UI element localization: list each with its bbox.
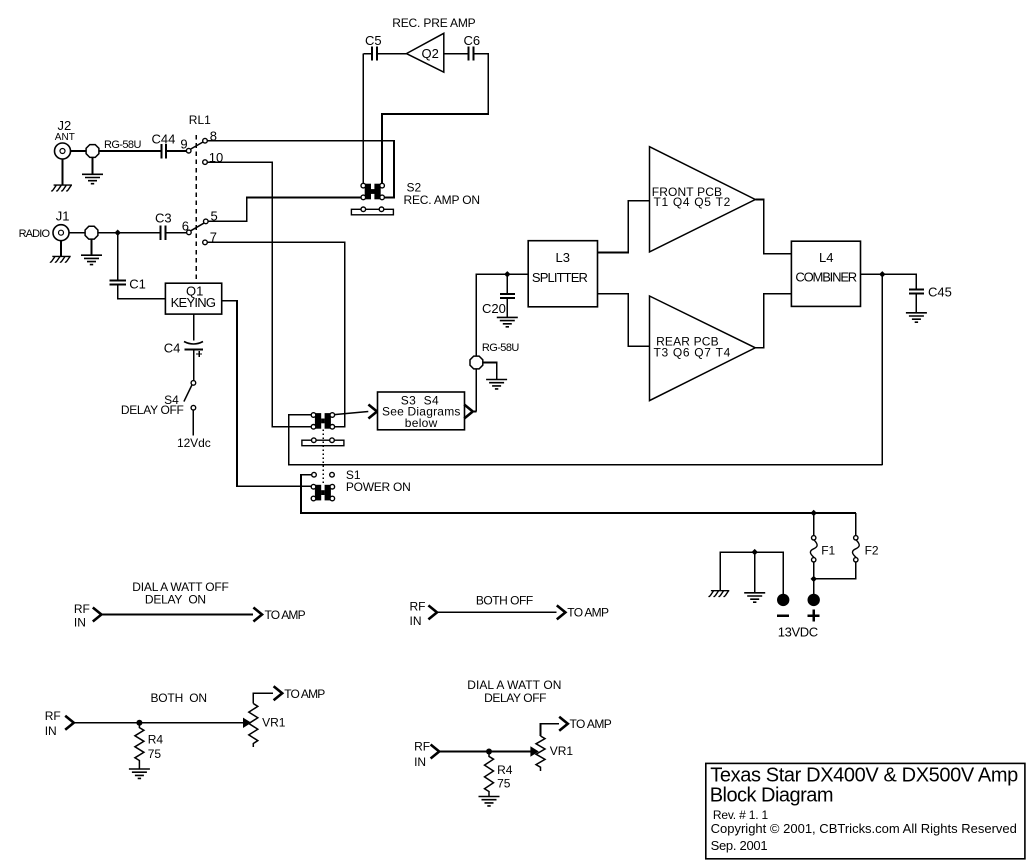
- wire C5 loop to S2: [363, 54, 372, 184]
- wire F1 branch: [813, 513, 815, 579]
- svg-text:REC. AMP ON: REC. AMP ON: [404, 193, 481, 207]
- capacitor C1: [110, 280, 126, 284]
- contact 10: [203, 160, 208, 165]
- node junction J1: [115, 230, 121, 236]
- shield octagon J1: [85, 226, 98, 239]
- earth ground below J2 shield: [82, 174, 103, 183]
- svg-text:C1: C1: [129, 276, 146, 291]
- dotted link S3S4 to S1: [322, 430, 324, 485]
- wire L3 to REAR PCB: [598, 294, 650, 347]
- svg-text:Block Diagram: Block Diagram: [710, 784, 834, 806]
- node junction d: [486, 749, 492, 755]
- svg-text:RG-58U: RG-58U: [104, 139, 141, 151]
- svg-text:below: below: [405, 416, 438, 430]
- capacitor C20: [500, 294, 515, 298]
- earth ground below J1 shield: [81, 255, 102, 264]
- earth ground R4 c: [129, 769, 150, 778]
- svg-text:RADIO: RADIO: [19, 228, 51, 240]
- earth ground below C20: [497, 317, 518, 326]
- node junction L4 output: [879, 271, 885, 277]
- svg-text:R4: R4: [497, 763, 513, 777]
- wire S1 top-left to bottom rail: [301, 475, 856, 513]
- wire REAR PCB to L4: [755, 294, 791, 348]
- svg-text:POWER ON: POWER ON: [346, 480, 411, 494]
- svg-text:RG-58U: RG-58U: [482, 342, 519, 354]
- fuse F1: [810, 536, 817, 562]
- wire minus terminal to grounds: [720, 552, 783, 594]
- svg-text:VR1: VR1: [262, 715, 286, 729]
- wire contact8 to S2: [207, 141, 394, 198]
- chassis ground below J2: [51, 185, 72, 191]
- earth ground R4 d: [479, 797, 500, 806]
- svg-text:C6: C6: [464, 33, 481, 48]
- svg-text:C20: C20: [482, 301, 506, 316]
- svg-text:RF: RF: [74, 602, 90, 616]
- wire L4 output to C45: [861, 274, 917, 289]
- svg-text:9: 9: [180, 137, 187, 152]
- wire octagon tap to ground: [483, 363, 497, 380]
- svg-text:L4: L4: [819, 250, 833, 265]
- block S3 S4 See Diagrams below: [378, 392, 465, 430]
- potentiometer VR1 c: [249, 704, 258, 748]
- wire VR1 to arrow c: [253, 693, 273, 703]
- svg-text:ANT: ANT: [55, 132, 75, 143]
- contact 5: [204, 219, 209, 224]
- arrow RF in d: [431, 745, 440, 759]
- wire S3S4 output to RG-58U octagon: [474, 274, 528, 411]
- svg-text:Q2: Q2: [422, 46, 439, 61]
- svg-text:C5: C5: [365, 33, 382, 48]
- node junction c: [136, 720, 142, 726]
- svg-text:IN: IN: [74, 616, 86, 630]
- potentiometer VR1 d wiper arrow: [530, 746, 538, 756]
- capacitor C3: [160, 225, 165, 240]
- svg-text:TO AMP: TO AMP: [567, 605, 609, 619]
- wire contact5 to S2: [208, 198, 361, 222]
- svg-text:TO AMP: TO AMP: [570, 717, 612, 731]
- wire C1 junction to Q1: [118, 233, 166, 299]
- capacitor C6: [469, 47, 474, 61]
- svg-text:75: 75: [148, 747, 162, 761]
- switch S3S4 slider bracket: [302, 438, 344, 446]
- arrow RF in a: [93, 608, 102, 622]
- svg-text:6: 6: [182, 218, 189, 233]
- switch S3 S4 transformer: [311, 413, 334, 429]
- svg-text:IN: IN: [410, 614, 422, 628]
- svg-text:IN: IN: [45, 724, 57, 738]
- svg-text:RF: RF: [414, 739, 430, 753]
- capacitor C44: [162, 144, 166, 158]
- svg-text:REC. PRE AMP: REC. PRE AMP: [392, 16, 476, 30]
- svg-text:5: 5: [211, 209, 218, 224]
- wire S3S4 left-top to right rail: [289, 415, 883, 465]
- svg-text:7: 7: [210, 230, 217, 245]
- svg-text:C45: C45: [928, 285, 952, 300]
- arrow to amp d: [559, 717, 568, 731]
- wire a: [102, 614, 254, 616]
- wire J1 to C3: [69, 232, 187, 234]
- wire S3S4 right-top to box arrow: [334, 412, 368, 415]
- svg-text:C4: C4: [164, 341, 181, 356]
- capacitor C5: [372, 47, 377, 61]
- svg-text:J2: J2: [58, 118, 72, 133]
- arrow to amp b: [557, 605, 566, 619]
- block L3 SPLITTER: [528, 241, 597, 307]
- wire FRONT PCB to L4: [755, 200, 791, 254]
- wire Q1 bottom to C4: [193, 314, 195, 381]
- svg-text:L3: L3: [556, 250, 570, 265]
- svg-text:DIAL A WATT ON: DIAL A WATT ON: [467, 678, 561, 692]
- svg-text:F1: F1: [821, 544, 835, 558]
- chassis ground below J1: [50, 256, 71, 262]
- wire contact10 to S3S4: [207, 162, 311, 427]
- arrow out of S3S4 box: [464, 405, 473, 419]
- relay RL1 dashed link: [195, 135, 197, 283]
- svg-text:75: 75: [497, 777, 511, 791]
- wire b: [437, 611, 556, 613]
- contact 9: [186, 148, 191, 153]
- chassis ground power: [709, 591, 730, 597]
- connector J2: [55, 143, 71, 159]
- resistor R4 d: [485, 752, 494, 797]
- block Q1 KEYING: [165, 283, 221, 314]
- relay arm 9-8: [191, 142, 203, 149]
- capacitor C4 polarized: [184, 342, 203, 345]
- contact 6: [187, 230, 192, 235]
- svg-text:C44: C44: [152, 131, 176, 146]
- amplifier REAR PCB: [650, 296, 756, 401]
- svg-text:12Vdc: 12Vdc: [177, 436, 211, 450]
- arrow RF in b: [428, 605, 437, 619]
- switch S1 POWER ON: [312, 472, 317, 477]
- svg-text:DELAY OFF: DELAY OFF: [121, 403, 184, 417]
- earth ground below C45: [906, 313, 927, 322]
- svg-text:Texas Star DX400V & DX500V Amp: Texas Star DX400V & DX500V Amp: [710, 765, 1018, 787]
- resistor R4 c: [135, 723, 144, 769]
- potentiometer VR1 d: [536, 736, 545, 771]
- svg-text:8: 8: [210, 128, 217, 143]
- svg-text:C3: C3: [155, 211, 172, 226]
- svg-text:13VDC: 13VDC: [778, 625, 819, 640]
- amplifier FRONT PCB: [650, 147, 756, 252]
- wire Q1 right to S1: [222, 301, 312, 486]
- wire F2 branch: [814, 513, 856, 579]
- wire J2 to C44: [71, 150, 187, 152]
- wire L3 to FRONT PCB: [598, 201, 650, 253]
- svg-text:Copyright © 2001, CBTricks.com: Copyright © 2001, CBTricks.com All Right…: [711, 821, 1017, 836]
- shield octagon J2: [86, 145, 99, 158]
- shield octagon RG-58U splitter input: [470, 356, 483, 369]
- svg-text:DELAY ON: DELAY ON: [145, 592, 206, 606]
- node junction L3 input: [504, 271, 510, 277]
- terminal minus: [777, 594, 789, 606]
- relay arm 6-5: [191, 223, 204, 231]
- svg-text:TO AMP: TO AMP: [284, 687, 325, 701]
- svg-text:Sep. 2001: Sep. 2001: [711, 838, 768, 853]
- arrow to amp a: [253, 608, 262, 622]
- wire C45 to ground: [915, 294, 917, 313]
- node junction below F1: [811, 576, 817, 582]
- svg-text:BOTH ON: BOTH ON: [151, 691, 208, 705]
- svg-text:SPLITTER: SPLITTER: [532, 270, 588, 285]
- earth ground below RG-58U tap: [486, 380, 507, 389]
- block L4 COMBINER: [791, 241, 860, 306]
- svg-text:J1: J1: [56, 208, 70, 223]
- contact 8: [203, 138, 208, 143]
- svg-text:COMBINER: COMBINER: [795, 269, 857, 284]
- wire earth ground stub power: [754, 552, 756, 593]
- svg-text:RF: RF: [45, 709, 61, 723]
- svg-text:DELAY OFF: DELAY OFF: [484, 691, 546, 705]
- switch S2: [361, 183, 384, 199]
- arrow to amp c: [274, 686, 283, 700]
- svg-text:IN: IN: [414, 755, 426, 769]
- wire d: [439, 751, 530, 753]
- svg-text:RL1: RL1: [189, 113, 211, 127]
- connector J1: [53, 225, 69, 241]
- svg-text:VR1: VR1: [550, 744, 574, 758]
- wire C20 stub: [506, 274, 508, 317]
- node junction bottom rail F1: [811, 510, 817, 516]
- wire plus terminal: [813, 579, 815, 594]
- terminal plus: [808, 594, 820, 606]
- svg-text:Rev. # 1. 1: Rev. # 1. 1: [713, 808, 769, 822]
- svg-text:F2: F2: [865, 544, 879, 558]
- switch S4: [191, 381, 196, 386]
- arrow into S3S4 box: [368, 405, 377, 419]
- switch S2 slider bracket: [351, 207, 393, 215]
- wire output down right side: [881, 274, 883, 465]
- svg-text:BOTH OFF: BOTH OFF: [476, 593, 533, 607]
- node junction ground rail: [752, 549, 758, 555]
- fuse F2: [852, 536, 859, 562]
- svg-text:10: 10: [209, 150, 223, 165]
- svg-text:T3 Q6 Q7 T4: T3 Q6 Q7 T4: [654, 345, 731, 359]
- svg-text:TO AMP: TO AMP: [265, 608, 306, 622]
- contact 7: [203, 240, 208, 245]
- wire contact7 to S3S4: [207, 242, 344, 426]
- wire C6 loop to S2: [377, 54, 488, 184]
- wire c: [75, 722, 244, 724]
- earth ground power: [744, 593, 765, 602]
- arrow RF in c: [65, 716, 74, 730]
- svg-text:R4: R4: [148, 733, 164, 747]
- svg-text:T1 Q4 Q5 T2: T1 Q4 Q5 T2: [654, 195, 731, 209]
- op-amp Q2: [406, 33, 443, 72]
- potentiometer VR1 c wiper arrow: [243, 718, 251, 728]
- svg-text:RF: RF: [410, 600, 426, 614]
- wire VR1 to arrow d: [541, 724, 559, 736]
- svg-text:KEYING: KEYING: [171, 295, 216, 310]
- capacitor C45: [909, 290, 924, 294]
- wire S4 to 12Vdc: [192, 410, 194, 435]
